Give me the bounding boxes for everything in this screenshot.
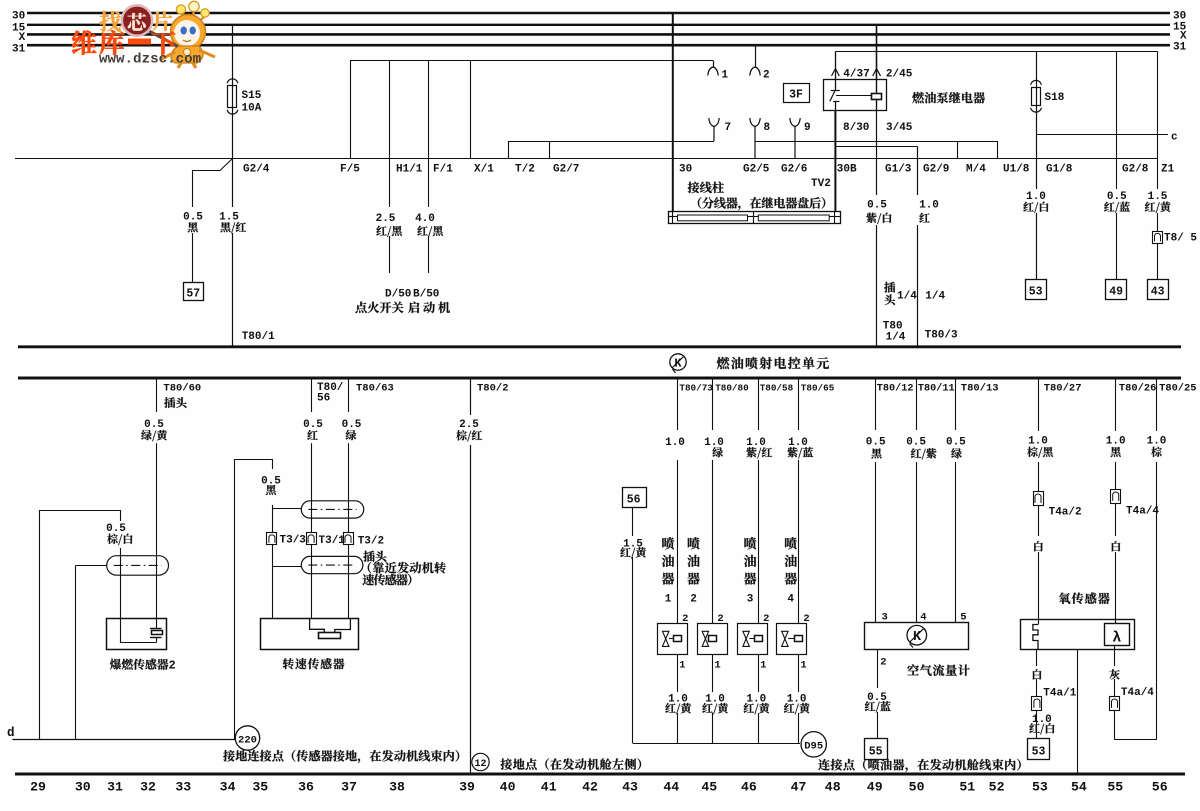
track numbers (30, 780, 1168, 795)
svg-text:43: 43 (1151, 286, 1165, 299)
label 0.5 black afm (866, 437, 886, 459)
wire F/5 (340, 61, 360, 176)
svg-text:4: 4 (787, 594, 794, 606)
wire bus15 to fuse S15 (232, 25, 234, 86)
label 1.0 inj1 (665, 437, 685, 449)
label 1.0 green inj2 (704, 437, 724, 457)
svg-text:52: 52 (989, 780, 1005, 795)
connector 8 (743, 118, 771, 176)
label fuel injection ECU (717, 357, 829, 369)
svg-text:53: 53 (1032, 780, 1048, 795)
oxygen sensor G39 box (1021, 620, 1135, 650)
label white upper right (1112, 541, 1121, 551)
svg-text:1: 1 (800, 660, 806, 672)
label 4.0 red/black (415, 213, 443, 237)
wire box56 1.5 red/yellow (632, 507, 634, 743)
svg-text:41: 41 (541, 780, 557, 795)
terminal strip busbar (668, 211, 841, 223)
label 2.5 brown/red (456, 419, 482, 441)
pin label T80/56 (317, 382, 344, 405)
label 2/45 (886, 69, 913, 81)
wire T80 to injector 3 (758, 378, 760, 624)
svg-text:T80/25: T80/25 (1159, 383, 1196, 395)
injector 3 pin labels (760, 613, 769, 672)
bus 31 (12, 41, 1187, 55)
label 0.5 red/blue (1104, 191, 1130, 213)
svg-text:T80/11: T80/11 (918, 383, 955, 395)
svg-text:0.5: 0.5 (342, 419, 362, 431)
relay coil (872, 80, 882, 111)
connector T4a/2 (1034, 492, 1082, 519)
pin label T80/63 (356, 383, 394, 395)
main relay-plate rail (15, 158, 1158, 160)
label white lower (1033, 669, 1042, 679)
svg-text:T8/ 5: T8/ 5 (1164, 233, 1197, 245)
svg-text:33: 33 (175, 780, 191, 795)
label terminal post (688, 182, 826, 211)
wire T80/11 0.5 red/purple (916, 378, 918, 622)
svg-text:T80/2: T80/2 (477, 383, 509, 395)
label 0.5 green afm (946, 437, 966, 459)
svg-text:46: 46 (741, 780, 757, 795)
wire T80/27 1.0 brown/black (1038, 378, 1040, 625)
svg-text:36: 36 (298, 780, 314, 795)
svg-text:37: 37 (341, 780, 357, 795)
label 1.0 brown/black (1027, 436, 1053, 458)
wire S18 to box 53 1.0 red/white (1037, 106, 1073, 280)
svg-text:0.5: 0.5 (866, 437, 886, 449)
svg-text:4.0: 4.0 (415, 213, 435, 225)
svg-text:D95: D95 (804, 741, 823, 753)
svg-text:0.5: 0.5 (1107, 191, 1127, 203)
svg-text:T80/73: T80/73 (679, 383, 713, 394)
label 1.5 red/yellow (1145, 191, 1171, 213)
pin label T80/27 (1044, 383, 1082, 395)
wire F/1 to starter B/50 4.0 red/black (429, 61, 454, 274)
wire bus30 to terminal strip 30 (673, 13, 692, 211)
ground point 12 (472, 753, 489, 770)
label 1.0 red/yellow inj3 (744, 694, 770, 715)
svg-text:T80/26: T80/26 (1119, 383, 1156, 395)
svg-text:T3/3: T3/3 (280, 535, 307, 547)
connection point D95 (801, 732, 826, 757)
svg-text:38: 38 (389, 780, 405, 795)
svg-text:G1/3: G1/3 (885, 164, 912, 176)
svg-text:30: 30 (12, 10, 25, 22)
label injector 4 vertical (785, 537, 797, 605)
wire Z1 to box 43 1.5 red/yellow (1158, 51, 1175, 279)
connector 1 (708, 61, 729, 82)
fuse S15 10A (227, 79, 262, 115)
svg-text:K: K (913, 630, 922, 645)
svg-text:3: 3 (747, 594, 754, 606)
svg-text:2: 2 (763, 70, 770, 82)
svg-text:30B: 30B (837, 164, 857, 176)
injector N3 box (738, 624, 768, 655)
svg-text:56: 56 (1152, 780, 1168, 795)
wire T80/63 0.5 green (348, 378, 350, 619)
pin label T80/1 (242, 331, 275, 343)
svg-text:2.5: 2.5 (376, 213, 396, 225)
label ground point engine bay left (501, 758, 642, 770)
wire H1/1 to ignition switch D/50 2.5 red/black (390, 61, 423, 274)
label 0.5 black drain (261, 476, 281, 496)
wire branch to terminal 57 (193, 159, 233, 283)
svg-text:57: 57 (186, 288, 200, 301)
svg-text:1: 1 (665, 594, 672, 606)
node G2/4 (243, 164, 270, 176)
label 0.5 red/blue afm (865, 692, 891, 712)
label 1.0 red/yellow inj2 (702, 694, 728, 715)
connector T8/5 (1153, 232, 1198, 245)
svg-text:G1/8: G1/8 (1046, 164, 1073, 176)
o2 lambda cell (1105, 624, 1130, 647)
label 0.5 green/yellow (141, 419, 167, 441)
wire afm pin2 0.5 red/blue (878, 649, 887, 738)
label D/50 ignition switch (355, 289, 411, 314)
svg-text:29: 29 (30, 780, 46, 795)
svg-text:X/1: X/1 (474, 164, 494, 176)
label connection point injectors (818, 759, 1020, 772)
svg-text:39: 39 (459, 780, 475, 795)
label 1.5 black/red (219, 211, 246, 233)
terminal box 53 lower (1028, 739, 1050, 760)
pin label T80/11 (918, 383, 955, 395)
wire T80/12 0.5 black (875, 378, 877, 622)
relay contact (830, 80, 840, 111)
pin label T80/12 (877, 383, 914, 395)
wire T80 to injector 1 (677, 378, 679, 624)
svg-text:1.5: 1.5 (1148, 191, 1168, 203)
svg-text:30: 30 (75, 780, 91, 795)
label ground connection point sensors (223, 750, 459, 763)
relay J17 box (824, 80, 887, 111)
pin label T80/73 (679, 383, 713, 394)
wire injector 1 to return bus 1.0 red/yellow (677, 654, 679, 743)
wire line 51 horizontal (835, 51, 1157, 53)
svg-text:Z1: Z1 (1161, 164, 1175, 176)
wire relay 4/37 to line 51 (832, 51, 840, 79)
pin label T80/25 (1159, 383, 1196, 395)
connector T3/1 (307, 533, 346, 548)
wire T80 to injector 4 (798, 378, 800, 624)
svg-text:1: 1 (714, 660, 720, 672)
svg-text:44: 44 (663, 780, 679, 795)
svg-text:0.5: 0.5 (183, 211, 203, 223)
label injector 2 vertical (687, 537, 699, 605)
svg-text:T80/1: T80/1 (242, 331, 275, 343)
relay actuating link (836, 95, 872, 97)
svg-text:www.dzsc.com: www.dzsc.com (99, 52, 201, 68)
label grey (1109, 669, 1119, 679)
fuse S18 (1031, 80, 1065, 112)
wire shield drain 0.5 black (235, 460, 273, 740)
svg-text:2: 2 (763, 613, 769, 625)
pin label T80/26 (1119, 383, 1156, 395)
wire T80/13 0.5 green (955, 378, 957, 622)
svg-text:0.5: 0.5 (303, 419, 323, 431)
watermark logo (72, 1, 215, 68)
svg-text:X: X (19, 32, 26, 44)
label fuel pump relay (912, 92, 985, 103)
svg-text:56: 56 (317, 393, 330, 405)
label knock sensor 2 (110, 659, 176, 673)
svg-text:S18: S18 (1045, 92, 1065, 104)
connector 7 (709, 118, 731, 141)
bus 30 (12, 10, 1186, 22)
svg-text:1.0: 1.0 (1028, 436, 1048, 448)
label 0.5 red/purple (906, 437, 936, 460)
injector N2 valve symbol (702, 631, 716, 646)
svg-text:2.5: 2.5 (459, 419, 479, 431)
wire o2 ground to track 54 (1077, 650, 1079, 773)
svg-text:G2/8: G2/8 (1122, 164, 1149, 176)
svg-text:T80/65: T80/65 (801, 383, 835, 394)
pin label T80/65 (801, 383, 835, 394)
svg-text:T80/27: T80/27 (1044, 383, 1082, 395)
svg-text:31: 31 (1173, 41, 1187, 53)
label 1.0 red/white lower (1029, 714, 1054, 734)
label 1.0 brown (1147, 436, 1167, 458)
svg-text:50: 50 (909, 780, 925, 795)
svg-text:1.0: 1.0 (1026, 191, 1046, 203)
ground connection point 220 (235, 726, 259, 750)
label 1.0 purple/red inj3 (746, 437, 772, 458)
label 0.5 brown/white (106, 523, 132, 545)
svg-text:G2/4: G2/4 (243, 164, 270, 176)
svg-text:8: 8 (764, 122, 771, 134)
svg-text:F/5: F/5 (340, 164, 360, 176)
label 1.0 red/yellow inj4 (784, 694, 810, 715)
connector T4a/1 (1032, 688, 1077, 711)
wire shield drain knock (76, 565, 107, 739)
label 2.5 red/black (376, 213, 402, 237)
svg-text:2: 2 (803, 613, 809, 625)
wire drop M/4 (958, 141, 987, 176)
svg-text:T80/13: T80/13 (961, 383, 999, 395)
label 0.5 red (303, 419, 323, 440)
svg-text:0.5: 0.5 (946, 437, 966, 449)
ECU fuel injection control unit band (18, 347, 1181, 378)
svg-text:T80/12: T80/12 (877, 383, 914, 395)
svg-text:F/1: F/1 (433, 164, 453, 176)
svg-text:2/45: 2/45 (886, 69, 913, 81)
svg-text:220: 220 (238, 734, 257, 746)
svg-text:31: 31 (12, 43, 26, 55)
label speed sensor (283, 658, 345, 669)
wire fuse S15 to node G2/4 (232, 108, 234, 159)
injector 1 pin labels (679, 613, 688, 672)
svg-text:T4a/4: T4a/4 (1126, 506, 1159, 518)
svg-text:2: 2 (717, 613, 723, 625)
svg-text:TV2: TV2 (811, 178, 831, 190)
svg-text:T3/1: T3/1 (319, 535, 346, 547)
label 3/45 (886, 122, 913, 134)
afm symbol K (907, 625, 927, 647)
svg-text:T80/80: T80/80 (715, 383, 749, 394)
pin label T80/13 (961, 383, 999, 395)
ECU symbol K (670, 354, 686, 373)
injector N1 box (658, 624, 688, 655)
svg-text:3: 3 (882, 612, 888, 624)
svg-text:0.5: 0.5 (906, 437, 926, 449)
svg-text:T80/63: T80/63 (356, 383, 394, 395)
svg-text:48: 48 (825, 780, 841, 795)
svg-text:0.5: 0.5 (867, 200, 887, 212)
wire drain to speed sensor (273, 505, 302, 619)
svg-text:2: 2 (682, 613, 688, 625)
label 0.5 purple/white (860, 195, 897, 225)
svg-text:S15: S15 (242, 90, 262, 102)
connector labels 1/4 (884, 282, 945, 305)
svg-text:λ: λ (1112, 630, 1121, 647)
svg-text:49: 49 (867, 780, 883, 795)
label injector 1 vertical (662, 537, 674, 605)
label plug under T80/60 (164, 397, 186, 408)
wire injector 4 to return bus 1.0 red/yellow (798, 654, 800, 743)
wire T80/25 1.0 brown (1156, 378, 1158, 740)
svg-text:43: 43 (622, 780, 638, 795)
svg-text:T/2: T/2 (515, 164, 535, 176)
svg-text:1.0: 1.0 (1106, 436, 1126, 448)
shield knock sensor cable (107, 556, 169, 576)
injector N4 box (777, 624, 807, 655)
pin label T80/3 (925, 330, 958, 342)
svg-text:D/50: D/50 (385, 289, 411, 301)
svg-text:56: 56 (627, 494, 641, 507)
svg-text:M/4: M/4 (966, 164, 986, 176)
box 3F (784, 84, 810, 103)
svg-text:31: 31 (107, 780, 123, 795)
bus 15 (12, 21, 1187, 34)
wire injector 3 to return bus 1.0 red/yellow (758, 654, 760, 743)
svg-text:1.0: 1.0 (1147, 436, 1167, 448)
wire lambda grey to T80/25 (1115, 646, 1157, 740)
wire relay 8/30 to terminal strip 30B (835, 110, 857, 211)
svg-text:2: 2 (690, 594, 697, 606)
wire ground bracket brown/white (40, 511, 121, 740)
wire T80/26 1.0 black (1115, 378, 1117, 624)
connector 9 (781, 118, 811, 176)
pin label T80 1/4 (883, 321, 906, 344)
svg-text:34: 34 (220, 780, 236, 795)
svg-text:10A: 10A (242, 103, 262, 115)
svg-text:T3/2: T3/2 (358, 536, 384, 548)
wire injector 2 to return bus 1.0 red/yellow (712, 654, 714, 743)
svg-text:2: 2 (169, 659, 176, 673)
wire T80 to injector 2 (712, 378, 714, 624)
injector N1 valve symbol (663, 631, 682, 646)
bus X (19, 30, 1187, 44)
svg-text:8/30: 8/30 (843, 122, 869, 134)
shield speed sensor lower plug (301, 556, 363, 573)
label 4/37 (843, 69, 869, 81)
label 1.0 red/white (1023, 191, 1048, 213)
wire G2/7 (550, 141, 580, 176)
svg-text:40: 40 (500, 780, 516, 795)
svg-text:1: 1 (722, 70, 729, 82)
connector T3/3 (267, 533, 307, 547)
o2 heater element (1033, 625, 1038, 650)
svg-text:T4a/4: T4a/4 (1121, 687, 1154, 699)
svg-text:1/4: 1/4 (897, 291, 917, 303)
svg-text:H1/1: H1/1 (396, 164, 423, 176)
injector 2 pin labels (714, 613, 723, 672)
knock sensor element (120, 629, 163, 643)
wire o2 heater to box 53 1.0 red/white (1036, 650, 1038, 739)
terminal box 57 (184, 283, 204, 301)
label white upper left (1034, 541, 1043, 551)
svg-text:7: 7 (725, 122, 732, 134)
pin label T80/80 (715, 383, 749, 394)
svg-text:1: 1 (679, 660, 685, 672)
wire X/1 (471, 61, 495, 176)
label TV2 (811, 178, 831, 190)
svg-text:1.5: 1.5 (219, 211, 239, 223)
svg-text:B/50: B/50 (413, 289, 439, 301)
svg-text:51: 51 (959, 780, 975, 795)
wire T80/2 2.5 brown/red to ground 12 (470, 378, 472, 773)
injector return bus (633, 743, 800, 745)
svg-text:U1/8: U1/8 (1003, 164, 1030, 176)
shield speed sensor upper (301, 501, 363, 518)
wire 30B to G2/9 to T80/3 1.0 red (835, 147, 949, 346)
label injector 3 vertical (744, 537, 756, 605)
terminal box 49 (1106, 280, 1127, 300)
terminal box 55 (865, 739, 888, 760)
speed sensor G28 box (261, 619, 359, 650)
svg-text:K: K (674, 357, 682, 371)
svg-text:G2/5: G2/5 (743, 164, 770, 176)
pin label T80/60 (163, 383, 201, 395)
svg-text:d: d (7, 726, 15, 740)
label 8/30 (843, 122, 869, 134)
wire T80/60 0.5 green/yellow (156, 378, 158, 628)
node c line (1036, 132, 1178, 144)
svg-text:G2/9: G2/9 (923, 164, 949, 176)
svg-text:4: 4 (920, 612, 926, 624)
svg-text:T80/3: T80/3 (925, 330, 958, 342)
svg-text:1/4: 1/4 (925, 291, 945, 303)
svg-text:30: 30 (679, 164, 692, 176)
svg-text:5: 5 (960, 612, 966, 624)
connector T4a/4 lower (1110, 687, 1155, 711)
svg-text:1.0: 1.0 (919, 200, 939, 212)
svg-text:3F: 3F (789, 89, 803, 102)
svg-text:55: 55 (869, 746, 883, 759)
svg-text:47: 47 (791, 780, 807, 795)
label plug near engine speed sensor (362, 551, 445, 586)
svg-text:35: 35 (252, 780, 268, 795)
bottom frame rail (15, 773, 1185, 776)
svg-text:9: 9 (804, 122, 811, 134)
svg-text:G2/6: G2/6 (781, 164, 807, 176)
terminal box 53 (1026, 280, 1047, 300)
wire T80/56 0.5 red (311, 378, 313, 619)
terminal box 43 (1148, 280, 1169, 300)
wire T/2 (509, 141, 535, 176)
svg-text:3/45: 3/45 (886, 122, 913, 134)
svg-text:53: 53 (1029, 286, 1043, 299)
wire relay 3/45 to T80 1/4 0.5 purple/white (877, 110, 912, 345)
wire bus15 to relay 2/45 (873, 25, 881, 80)
label 1.0 black o2 (1106, 436, 1126, 458)
svg-text:32: 32 (140, 780, 156, 795)
wire distribution line 141 right (755, 141, 997, 143)
wire G2/8 to box 49 0.5 red/blue (1117, 51, 1149, 279)
svg-text:G2/7: G2/7 (553, 164, 579, 176)
svg-text:45: 45 (701, 780, 717, 795)
